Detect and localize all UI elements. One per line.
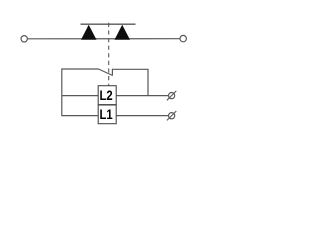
- wire switch feed: [62, 68, 99, 70]
- box L2: [98, 86, 116, 105]
- svg-text:L2: L2: [100, 88, 113, 103]
- right triangle actuator: [115, 25, 131, 40]
- wire top horizontal: [28, 38, 180, 40]
- box L1: [98, 105, 116, 124]
- mechanical link (dashed): [108, 23, 110, 86]
- wire L1 left: [62, 115, 98, 117]
- switch contact stem: [111, 69, 113, 76]
- wire L1 right: [116, 115, 168, 117]
- wire L2 left: [62, 95, 98, 97]
- switch S blade: [99, 69, 113, 76]
- terminal circle left: [21, 36, 27, 42]
- svg-text:L1: L1: [100, 107, 114, 122]
- terminal circle right: [180, 35, 186, 41]
- output terminal 1 (lamp clamp): [169, 93, 175, 99]
- output terminal 2 (lamp clamp): [169, 113, 175, 119]
- wire switch output: [112, 69, 148, 95]
- wire L2 right: [116, 95, 168, 97]
- left triangle actuator: [81, 25, 97, 40]
- rocker bar: [81, 23, 136, 25]
- wire left bus vertical: [61, 69, 63, 117]
